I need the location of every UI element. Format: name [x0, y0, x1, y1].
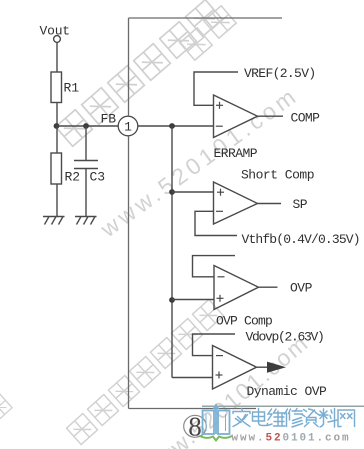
wire pin1 to ERRAMP inverting input [138, 125, 214, 127]
node FB junction dot [54, 123, 60, 129]
watermark chinese line top [56, 0, 223, 146]
glyph dian [253, 409, 268, 426]
logo book icon [203, 405, 230, 434]
IC boundary bottom horizontal wire [129, 408, 257, 410]
wire C3 top [85, 126, 87, 160]
wire U3 output [259, 286, 278, 288]
wire U4 output with arrow [257, 366, 269, 368]
arrowhead [267, 362, 286, 373]
junction dot FB bus [169, 123, 175, 129]
logo book green base [200, 436, 232, 441]
svg-text:VREF(2.5V): VREF(2.5V) [244, 66, 316, 81]
svg-text:1: 1 [124, 120, 132, 135]
svg-text:OVP Comp: OVP Comp [216, 313, 272, 328]
logo top rule [202, 405, 364, 407]
wire U2 inverting input to Vthfb [195, 211, 237, 235]
capacitor C3 [74, 161, 98, 169]
junction dot C3 tap [83, 123, 89, 129]
watermark chinese line bottom left [66, 299, 223, 444]
wire C3 to ground [85, 169, 87, 217]
svg-text:COMP: COMP [291, 110, 321, 125]
pin 1 circle [118, 116, 138, 136]
IC boundary bottom vertical wire [128, 136, 130, 409]
U4 minus sign [216, 355, 223, 357]
svg-text:C3: C3 [90, 170, 106, 185]
wire U2 output [258, 203, 282, 205]
VREF reference wire [194, 72, 238, 105]
svg-text:SP: SP [293, 197, 308, 212]
glyph liao [319, 409, 338, 428]
glyph xiu [285, 409, 303, 428]
IC boundary top horizontal wire [129, 17, 283, 19]
resistor R1 [51, 72, 62, 103]
U1 minus sign [216, 125, 223, 127]
U2 minus sign [216, 210, 223, 212]
U3 plus sign [217, 295, 224, 302]
logo chinese title pseudo glyphs [233, 409, 355, 428]
U2 plus sign [217, 189, 224, 196]
U1 plus sign [216, 102, 223, 109]
svg-text:Dynamic OVP: Dynamic OVP [247, 384, 328, 399]
pin 8 circle [184, 415, 207, 437]
U3 minus sign [218, 276, 225, 278]
junction dot short comp tap [169, 189, 175, 195]
ground under C3 [75, 217, 97, 225]
svg-text:R2: R2 [65, 170, 81, 185]
svg-text:Short Comp: Short Comp [241, 167, 314, 182]
glyph zi [302, 409, 320, 427]
svg-text:Vthfb(0.4V/0.35V): Vthfb(0.4V/0.35V) [242, 232, 360, 247]
svg-text:OVP: OVP [290, 281, 313, 296]
glyph jia [233, 409, 250, 427]
junction dot OVP tap [169, 297, 175, 303]
comparator U3 OVP Comp [214, 266, 259, 310]
glyph wang [338, 410, 355, 427]
FB bus vertical wire [171, 126, 173, 378]
wire bus to OVP plus input [172, 299, 214, 301]
svg-text:www.520101.com: www.520101.com [232, 432, 351, 444]
wire R1 to FB node [56, 103, 58, 127]
resistor R2 [51, 153, 62, 184]
svg-text:Vout: Vout [40, 24, 70, 39]
ground under R2 [43, 217, 65, 225]
wire U3 inverting input reference [193, 256, 236, 277]
watermark chinese fragment top second row [180, 6, 236, 60]
glyph wei [268, 409, 286, 426]
wire FB to R2 [56, 126, 58, 153]
svg-text:FB: FB [101, 112, 117, 127]
IC boundary top vertical wire [128, 18, 130, 116]
svg-text:R1: R1 [64, 81, 80, 96]
U4 plus sign [216, 372, 223, 379]
wire U4 inverting input to Vdovp [193, 334, 236, 356]
svg-text:ERRAMP: ERRAMP [214, 146, 258, 161]
Vout terminal [54, 36, 61, 43]
wire bus to Dynamic OVP plus input [172, 377, 213, 379]
op-amp U1 ERRAMP [214, 95, 258, 138]
wire Vout to R1 [56, 42, 58, 72]
comparator U2 Short Comp [214, 182, 258, 224]
wire U1 output [258, 115, 284, 117]
watermark edge fragment left [0, 393, 12, 421]
comparator U4 Dynamic OVP [213, 346, 257, 390]
svg-text:Vdovp(2.63V): Vdovp(2.63V) [246, 329, 324, 344]
wire R2 to ground [56, 184, 58, 217]
svg-text:8: 8 [188, 412, 202, 442]
wire FB row to pin1 [57, 125, 119, 127]
wire bus to Short Comp plus input [172, 191, 214, 193]
